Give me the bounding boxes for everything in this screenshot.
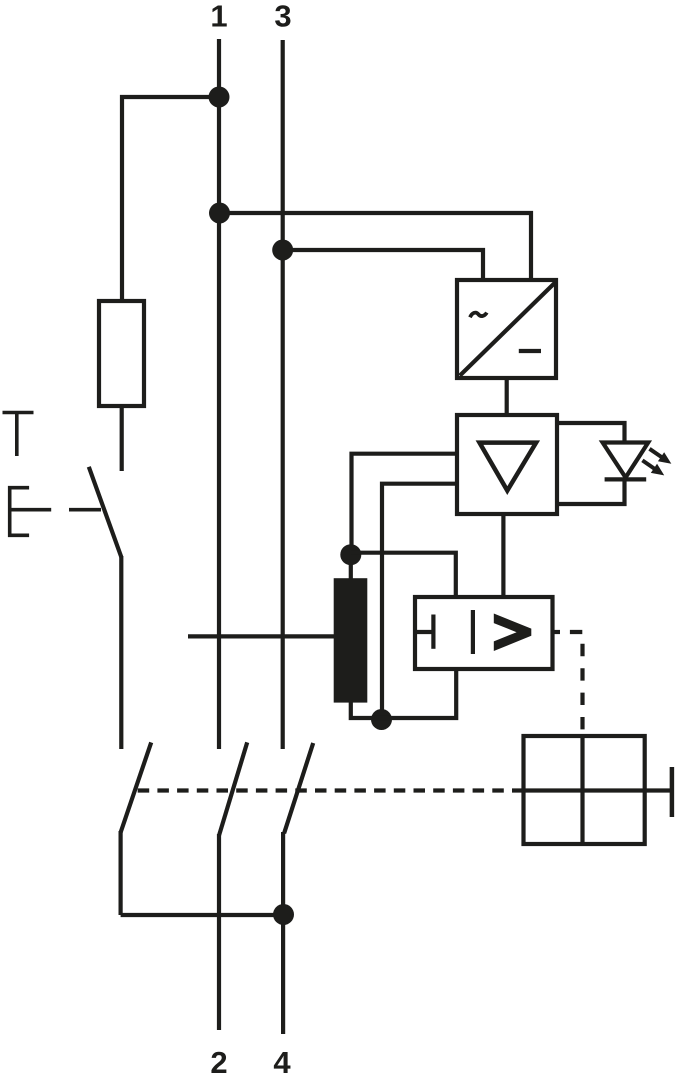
dashed trip signal link [570, 632, 583, 736]
rectifier AC tilde [470, 313, 487, 318]
wire test return to L3 [121, 913, 284, 917]
rectifier DC minus [519, 349, 541, 353]
test button bracket [10, 488, 29, 536]
amplifier U2 box [457, 415, 557, 514]
wire supply to rectifier left input [283, 250, 483, 280]
node junction on L3 [272, 240, 293, 261]
wire solenoid armature [645, 788, 670, 792]
armature end bar [670, 767, 675, 817]
LED emission arrow 2 [639, 456, 667, 480]
trip solenoid box [524, 736, 645, 844]
wire primary through CT [188, 634, 336, 638]
rectifier diagonal [460, 282, 556, 375]
trip solenoid cross horizontal [524, 788, 645, 792]
comparator delay symbol bar [431, 615, 435, 649]
LED D1 triangle [603, 443, 649, 478]
resistor R test [99, 301, 144, 406]
node junction on L1 top [209, 87, 230, 108]
wire CT secondary top lead [349, 545, 353, 580]
node junction on L1 [209, 203, 230, 224]
node junction on L3 bottom [273, 904, 294, 925]
node secondary bottom [371, 709, 392, 730]
wire LED loop top [556, 423, 625, 443]
wire node to comparator top [351, 553, 456, 597]
svg-text:4: 4 [273, 1045, 291, 1080]
wire test-branch tap from L1 [122, 97, 219, 301]
svg-text:3: 3 [274, 0, 291, 34]
svg-text:2: 2 [210, 1045, 227, 1080]
contact blade test circuit [121, 742, 152, 832]
contact blade pole 3 [284, 743, 313, 833]
wire amplifier to comparator [501, 514, 505, 597]
node secondary top [340, 544, 361, 565]
current transformer core W [334, 578, 368, 702]
LED emission arrow 1 [646, 444, 674, 468]
wire CT secondary to amplifier input 1 [352, 454, 458, 556]
test switch blade [89, 467, 122, 557]
comparator U3 box [415, 597, 553, 669]
svg-text:1: 1 [210, 0, 227, 34]
comparator output stub [553, 630, 561, 634]
wire test contact to lower contact [119, 556, 123, 749]
test button T label [3, 413, 34, 457]
rectifier U1 box [457, 280, 556, 378]
contact blade pole 1 [219, 742, 247, 835]
wire LED loop bottom [556, 478, 625, 504]
amplifier triangle [480, 443, 537, 491]
mechanical linkage dashed [133, 788, 524, 792]
LED cathode bar [605, 477, 647, 481]
comparator level bar [471, 610, 475, 654]
wire CT bottom lead to comparator bottom [351, 669, 456, 718]
wire test circuit lower [118, 831, 122, 915]
comparator greater-than symbol [494, 614, 532, 652]
wire CT secondary to amplifier input 2 [382, 484, 457, 720]
wire L3 pole conductor lower [281, 832, 285, 1034]
wire resistor to test contact [120, 406, 124, 471]
wire supply to rectifier right input [219, 213, 531, 280]
wire L3 pole conductor upper [281, 40, 285, 749]
comparator delay symbol stub [415, 630, 432, 634]
wire L1 pole conductor upper [217, 39, 221, 749]
wire rectifier to amplifier [505, 378, 509, 415]
test button actuator dashed link [10, 508, 101, 512]
trip solenoid cross vertical [580, 736, 584, 844]
wire L1 pole conductor lower [217, 834, 221, 1030]
